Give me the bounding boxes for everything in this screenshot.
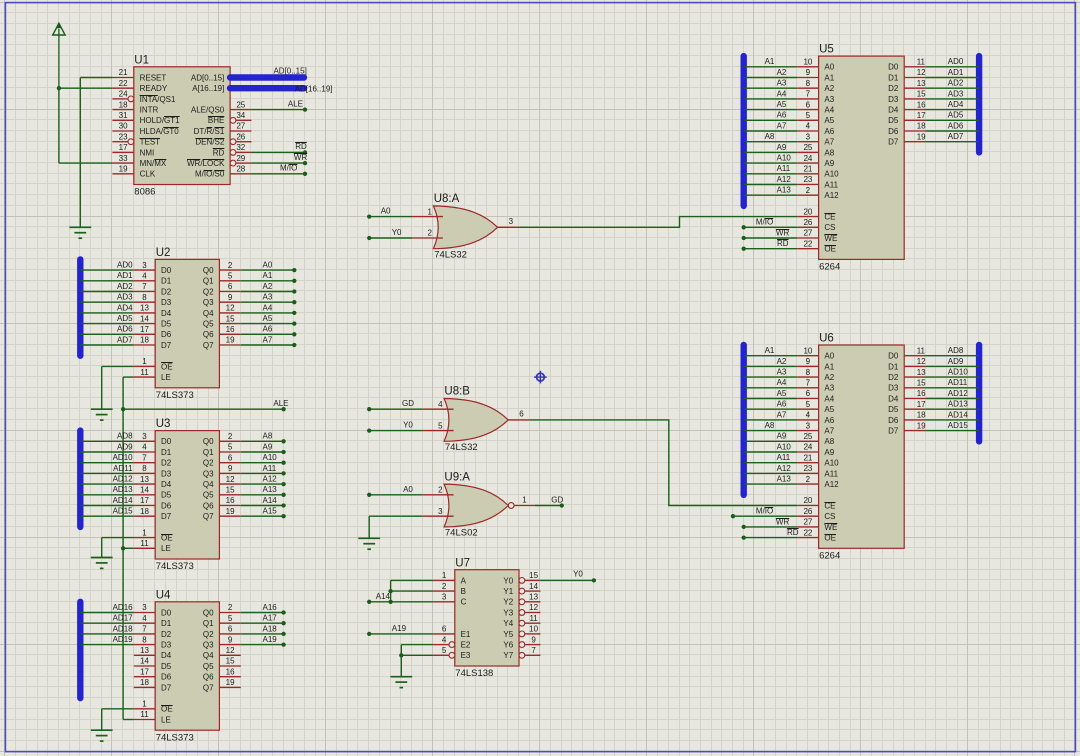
svg-text:D7: D7 [161, 341, 172, 350]
wire A14 to U7 C/B/A [369, 580, 433, 601]
svg-text:A12: A12 [824, 191, 839, 200]
U1 pin 28 M/IO/S0 [195, 165, 252, 179]
U5 pin 6 A4 [797, 100, 835, 114]
svg-text:30: 30 [119, 122, 128, 131]
svg-text:12: 12 [226, 304, 235, 313]
svg-text:A1: A1 [824, 73, 834, 82]
wire U3 Q3 net A11 [241, 472, 284, 474]
U8:A pin 3 output stub [498, 217, 519, 227]
wire bus to U5 A7 net A8 [744, 141, 798, 143]
svg-text:LE: LE [161, 544, 171, 553]
svg-text:U2: U2 [156, 247, 171, 259]
U7 pin 10 Y5 [503, 625, 540, 639]
wire U3 Q0 net A8 [241, 440, 284, 442]
wire U4 Q3 net A19 [241, 644, 284, 646]
junction U7 B tap [388, 589, 392, 593]
latch chip U2 74LS373 body [155, 259, 219, 387]
terminal dot A19 [367, 632, 371, 636]
svg-text:20: 20 [803, 207, 812, 216]
svg-text:A5: A5 [777, 100, 787, 109]
svg-text:A8: A8 [824, 148, 834, 157]
svg-text:A3: A3 [824, 95, 834, 104]
svg-text:AD8: AD8 [117, 432, 133, 441]
U5 pin 27 WE [797, 229, 837, 243]
svg-text:Y0: Y0 [573, 569, 583, 578]
address bus bar left of U6 [741, 345, 747, 495]
latch chip U4 74LS373 body [155, 602, 219, 730]
wire bus to U3 D7 net AD15 [80, 515, 134, 517]
svg-text:10: 10 [803, 58, 812, 67]
U5 pin 21 A10 [797, 165, 839, 179]
wire power rail down to MN/MX [59, 88, 113, 163]
U5 pin 26 CS [797, 218, 835, 232]
origin marker crosshair [534, 371, 547, 384]
U3 pin 3 D0 [134, 432, 172, 446]
wire bus to U5 A11 net A12 [744, 184, 798, 186]
wire U5 WE WR [744, 237, 798, 239]
svg-text:HLDA/GT0: HLDA/GT0 [140, 127, 180, 136]
svg-text:2: 2 [438, 486, 443, 495]
svg-text:INTR: INTR [140, 106, 159, 115]
wire ALE from U1 pin25 [252, 109, 306, 111]
svg-text:WR/LOCK: WR/LOCK [187, 159, 225, 168]
svg-text:5: 5 [442, 646, 447, 655]
svg-text:8086: 8086 [134, 187, 155, 198]
wire bus to U5 A5 net A6 [744, 119, 798, 121]
wire U4 Q1 net A17 [241, 622, 284, 624]
U1 pin 27 DT/R/S1 [194, 122, 252, 136]
svg-text:A11: A11 [824, 469, 838, 478]
svg-text:Q6: Q6 [203, 673, 214, 682]
terminal dot A18 [281, 632, 285, 636]
svg-text:D7: D7 [161, 512, 172, 521]
U2 pin 2 Q0 [203, 261, 241, 275]
U6 pin 24 A9 [797, 443, 835, 457]
U3 pin 2 Q0 [203, 432, 241, 446]
U2 pin 16 Q6 [203, 325, 241, 339]
wire U5 D1 to bus net AD1 [926, 77, 980, 79]
svg-text:A6: A6 [263, 325, 273, 334]
svg-text:2: 2 [228, 603, 233, 612]
svg-text:A11: A11 [824, 180, 838, 189]
svg-text:Q4: Q4 [203, 651, 214, 660]
svg-text:NMI: NMI [140, 148, 155, 157]
U4 pin 2 Q0 [203, 603, 241, 617]
terminal dot A0 [292, 268, 296, 272]
svg-text:D1: D1 [161, 277, 172, 286]
svg-text:6: 6 [806, 389, 811, 398]
svg-text:HOLD/GT1: HOLD/GT1 [140, 116, 181, 125]
svg-text:A6: A6 [824, 416, 834, 425]
U4 pin 3 D0 [134, 603, 172, 617]
bus bar left of U3 [77, 431, 83, 527]
svg-text:A6: A6 [777, 111, 787, 120]
svg-text:A5: A5 [824, 405, 834, 414]
svg-text:Y1: Y1 [503, 587, 513, 596]
svg-text:Q1: Q1 [203, 448, 214, 457]
svg-text:CS: CS [824, 223, 835, 232]
terminal dot A13 [281, 493, 285, 497]
U6 pin 7 A3 [797, 379, 835, 393]
svg-text:D2: D2 [888, 84, 899, 93]
svg-text:17: 17 [119, 143, 128, 152]
svg-text:AD1: AD1 [948, 68, 964, 77]
svg-text:2: 2 [806, 186, 811, 195]
svg-text:12: 12 [226, 646, 235, 655]
svg-text:Q3: Q3 [203, 298, 214, 307]
U4 pin 18 D7 [134, 678, 172, 692]
svg-text:21: 21 [119, 68, 128, 77]
U5 pin 4 A6 [797, 122, 835, 136]
svg-text:A10: A10 [824, 170, 839, 179]
wire A0 to U9:A pin2 [369, 494, 423, 496]
wire bus to U5 A6 net A7 [744, 130, 798, 132]
svg-text:74LS32: 74LS32 [445, 442, 478, 453]
svg-text:12: 12 [226, 475, 235, 484]
svg-text:13: 13 [917, 79, 926, 88]
U1 pin 18 INTR [112, 100, 158, 114]
svg-text:A: A [461, 576, 467, 585]
svg-text:17: 17 [917, 111, 926, 120]
svg-text:A[16..19]: A[16..19] [192, 84, 224, 93]
svg-text:AD9: AD9 [117, 442, 133, 451]
svg-text:AD15: AD15 [948, 421, 969, 430]
svg-text:MN/MX: MN/MX [140, 159, 167, 168]
U7 pin 5 E3 [433, 646, 471, 660]
svg-text:AD[16..19]: AD[16..19] [295, 85, 333, 94]
svg-text:A5: A5 [824, 116, 834, 125]
svg-text:9: 9 [228, 464, 233, 473]
svg-text:18: 18 [119, 100, 128, 109]
U9:A pin 1 output stub [514, 495, 535, 505]
U7 pin 6 E1 [433, 625, 471, 639]
svg-text:A10: A10 [824, 459, 839, 468]
wire bus to U3 D1 net AD9 [80, 451, 134, 453]
svg-text:D1: D1 [161, 619, 172, 628]
svg-text:14: 14 [140, 657, 149, 666]
terminal dot Y0 U8:A [367, 236, 371, 240]
svg-text:A11: A11 [777, 453, 791, 462]
wire RESET to ground rail [80, 78, 112, 228]
wire U6 D4 to bus net AD12 [926, 398, 980, 400]
terminal dot U6 WE [742, 525, 746, 529]
U2 pin 4 D1 [134, 272, 172, 286]
svg-text:12: 12 [917, 357, 926, 366]
U5 pin 25 A8 [797, 143, 835, 157]
svg-text:14: 14 [140, 314, 149, 323]
svg-text:16: 16 [226, 667, 235, 676]
svg-text:WE: WE [824, 234, 837, 243]
svg-text:M/IO: M/IO [756, 218, 773, 227]
svg-text:A4: A4 [777, 378, 787, 387]
U6 pin 2 A12 [797, 475, 839, 489]
svg-text:ALE: ALE [288, 99, 303, 108]
svg-text:AD1: AD1 [117, 271, 133, 280]
svg-text:A3: A3 [263, 293, 273, 302]
wire bus to U5 A10 net A11 [744, 173, 798, 175]
svg-text:AD14: AD14 [948, 410, 969, 419]
svg-text:19: 19 [226, 678, 235, 687]
svg-text:6: 6 [519, 410, 524, 419]
svg-text:D0: D0 [161, 608, 172, 617]
U7 pin 11 Y4 [503, 614, 540, 628]
wire U2 Q5 net A5 [241, 323, 294, 325]
U2 pin 5 Q1 [203, 272, 241, 286]
U6 pin 26 CS [797, 507, 835, 521]
U2 pin 8 D3 [134, 293, 172, 307]
svg-text:A13: A13 [777, 186, 792, 195]
wire A0 to U8:A pin1 [369, 216, 412, 218]
svg-text:A8: A8 [765, 421, 775, 430]
svg-text:A19: A19 [392, 624, 407, 633]
svg-text:19: 19 [226, 336, 235, 345]
svg-text:11: 11 [917, 58, 926, 67]
svg-text:M/IO/S0: M/IO/S0 [195, 170, 225, 179]
svg-text:D4: D4 [161, 480, 172, 489]
svg-text:A15: A15 [263, 507, 278, 516]
wire bus to U6 A6 net A7 [744, 419, 798, 421]
U1 pin 22 READY [112, 79, 167, 93]
svg-text:U7: U7 [455, 557, 470, 569]
svg-text:A0: A0 [824, 63, 834, 72]
svg-text:D6: D6 [161, 330, 172, 339]
svg-text:U8:A: U8:A [434, 193, 460, 205]
wire bus to U2 D0 net AD0 [80, 269, 134, 271]
wire power to READY pin22 [59, 87, 113, 89]
svg-text:16: 16 [226, 325, 235, 334]
svg-text:A4: A4 [824, 394, 834, 403]
terminal dot A14 [281, 503, 285, 507]
U2 pin 7 D2 [134, 282, 172, 296]
svg-text:31: 31 [119, 111, 128, 120]
svg-text:18: 18 [140, 336, 149, 345]
svg-text:22: 22 [119, 79, 128, 88]
svg-text:18: 18 [917, 122, 926, 131]
svg-text:GD: GD [402, 399, 414, 408]
svg-text:A4: A4 [263, 303, 273, 312]
svg-text:Q1: Q1 [203, 619, 214, 628]
svg-text:E1: E1 [461, 630, 471, 639]
svg-text:22: 22 [803, 528, 812, 537]
wire bus to U6 A9 net A10 [744, 451, 798, 453]
svg-text:18: 18 [917, 411, 926, 420]
terminal dot A11 [281, 471, 285, 475]
svg-text:U6: U6 [819, 333, 834, 345]
U2 pin 12 Q4 [203, 304, 241, 318]
svg-text:8: 8 [806, 368, 811, 377]
svg-text:Y0: Y0 [503, 576, 513, 585]
svg-text:E3: E3 [461, 651, 471, 660]
svg-text:D6: D6 [888, 416, 899, 425]
svg-text:6: 6 [228, 453, 233, 462]
svg-text:3: 3 [142, 603, 147, 612]
svg-text:A10: A10 [777, 442, 792, 451]
wire U4 OE to ground [102, 709, 134, 730]
wire bus to U3 D4 net AD12 [80, 483, 134, 485]
wire U2 Q6 net A6 [241, 333, 294, 335]
svg-text:A1: A1 [263, 271, 273, 280]
svg-text:15: 15 [917, 379, 926, 388]
wire bus to U5 A4 net A5 [744, 109, 798, 111]
U4 pin 9 Q3 [203, 635, 241, 649]
svg-text:A12: A12 [777, 175, 792, 184]
svg-text:7: 7 [806, 90, 811, 99]
svg-text:Y3: Y3 [503, 608, 513, 617]
svg-text:17: 17 [140, 325, 149, 334]
terminal dot U5 WE [742, 236, 746, 240]
bus AD[0..15] from U1 [230, 74, 304, 80]
svg-text:D2: D2 [161, 459, 172, 468]
power symbol VCC arrow [53, 23, 65, 88]
U5 pin 15 D3 [888, 90, 926, 104]
U5 pin 11 D0 [888, 58, 925, 72]
svg-text:AD15: AD15 [113, 507, 134, 516]
svg-text:Q2: Q2 [203, 459, 214, 468]
svg-text:RD: RD [787, 528, 799, 537]
svg-text:A13: A13 [263, 485, 278, 494]
U6 pin 5 A5 [797, 400, 835, 414]
svg-text:A10: A10 [263, 453, 278, 462]
U7 pin 13 Y2 [503, 593, 540, 607]
svg-text:ALE: ALE [273, 399, 288, 408]
junction U7 C tap [388, 600, 392, 604]
svg-text:AD13: AD13 [113, 485, 134, 494]
svg-text:AD13: AD13 [948, 400, 969, 409]
wire bus to U3 D3 net AD11 [80, 472, 134, 474]
svg-text:23: 23 [803, 464, 812, 473]
svg-text:13: 13 [917, 368, 926, 377]
U4 pin 7 D2 [134, 625, 172, 639]
wire U3 Q6 net A14 [241, 505, 284, 507]
svg-text:18: 18 [140, 678, 149, 687]
svg-text:2: 2 [442, 582, 447, 591]
wire U3 Q2 net A10 [241, 462, 284, 464]
wire bus to U5 A9 net A10 [744, 162, 798, 164]
svg-text:20: 20 [803, 496, 812, 505]
svg-text:A2: A2 [824, 84, 834, 93]
svg-text:Y2: Y2 [503, 598, 513, 607]
svg-text:AD5: AD5 [117, 314, 133, 323]
U1 pin 24 INTA/QS1 [112, 90, 176, 104]
svg-text:5: 5 [228, 614, 233, 623]
U4 pin 1 OE [134, 700, 173, 714]
wire bus to U4 D0 net AD16 [80, 612, 134, 614]
wire bus to U6 A8 net A9 [744, 440, 798, 442]
svg-text:AD6: AD6 [948, 121, 964, 130]
svg-text:1: 1 [522, 495, 527, 504]
svg-text:2: 2 [806, 475, 811, 484]
wire A19 to U7 E1 [369, 633, 433, 635]
U2 pin 13 D4 [134, 304, 172, 318]
svg-text:24: 24 [803, 443, 812, 452]
terminal dot ALE [303, 107, 307, 111]
wire U5 D0 to bus net AD0 [926, 66, 980, 68]
svg-text:A14: A14 [263, 496, 278, 505]
svg-text:D5: D5 [161, 491, 172, 500]
terminal dot A15 [281, 514, 285, 518]
wire U5 D2 to bus net AD2 [926, 87, 980, 89]
wire bus to U3 D5 net AD13 [80, 494, 134, 496]
svg-text:OE: OE [161, 362, 173, 371]
svg-text:74LS138: 74LS138 [455, 668, 493, 679]
svg-text:D5: D5 [161, 662, 172, 671]
bus A[16..19] from U1 [230, 85, 304, 91]
bus bar left of U2 [77, 259, 83, 355]
svg-text:23: 23 [119, 132, 128, 141]
U7 pin 9 Y6 [503, 635, 540, 649]
latch chip U3 74LS373 body [155, 431, 219, 559]
U1 pin 19 CLK [112, 165, 155, 179]
svg-text:A3: A3 [824, 384, 834, 393]
terminal dot M/IO [303, 172, 307, 176]
terminal dot A4 [292, 311, 296, 315]
wire bus to U2 D4 net AD4 [80, 312, 134, 314]
U4 pin 11 LE [134, 710, 171, 724]
U6 pin 20 CE [797, 496, 835, 510]
svg-text:25: 25 [803, 432, 812, 441]
junction U3 LE on ALE rail [121, 546, 125, 550]
junction U7 E3 tie [399, 653, 403, 657]
wire U4 Q0 net A16 [241, 612, 284, 614]
U5 pin 7 A3 [797, 90, 835, 104]
U1 pin 21 RESET [112, 68, 166, 82]
terminal dot A12 [281, 482, 285, 486]
svg-text:19: 19 [119, 165, 128, 174]
U4 pin 17 D6 [134, 667, 172, 681]
svg-text:A9: A9 [824, 159, 834, 168]
wire U6 D2 to bus net AD10 [926, 376, 980, 378]
svg-text:A0: A0 [263, 261, 273, 270]
svg-text:BHE: BHE [208, 116, 224, 125]
U6 pin 18 D6 [888, 411, 926, 425]
svg-text:24: 24 [803, 154, 812, 163]
svg-text:4: 4 [438, 400, 443, 409]
svg-text:5: 5 [438, 421, 443, 430]
wire U4 Q2 net A18 [241, 633, 284, 635]
svg-text:AD10: AD10 [113, 453, 134, 462]
wire bus to U4 D3 net AD19 [80, 644, 134, 646]
svg-text:32: 32 [236, 143, 245, 152]
svg-text:6264: 6264 [819, 262, 840, 273]
U6 pin 16 D4 [888, 389, 926, 403]
svg-text:74LS373: 74LS373 [156, 390, 194, 401]
U3 pin 1 OE [134, 528, 173, 542]
wire bus to U6 A0 net A1 [744, 355, 798, 357]
svg-text:7: 7 [531, 646, 536, 655]
svg-text:A9: A9 [777, 143, 787, 152]
svg-text:A4: A4 [777, 89, 787, 98]
svg-text:23: 23 [803, 175, 812, 184]
U4 pin 13 D4 [134, 646, 172, 660]
U7 pin 4 E2 [433, 635, 471, 649]
svg-text:Q5: Q5 [203, 662, 214, 671]
wire bus to U5 A1 net A2 [744, 77, 798, 79]
svg-text:13: 13 [140, 304, 149, 313]
terminal dot A1 [292, 279, 296, 283]
terminal dot GD U8:B [367, 407, 371, 411]
svg-text:Q7: Q7 [203, 512, 214, 521]
svg-text:AD16: AD16 [113, 603, 134, 612]
svg-text:74LS373: 74LS373 [156, 732, 194, 743]
svg-text:Q4: Q4 [203, 309, 214, 318]
svg-text:16: 16 [917, 100, 926, 109]
svg-text:11: 11 [917, 346, 926, 355]
svg-text:U3: U3 [156, 418, 171, 430]
svg-text:D1: D1 [888, 73, 899, 82]
svg-text:16: 16 [226, 496, 235, 505]
svg-text:A1: A1 [765, 57, 775, 66]
svg-text:D3: D3 [888, 384, 899, 393]
